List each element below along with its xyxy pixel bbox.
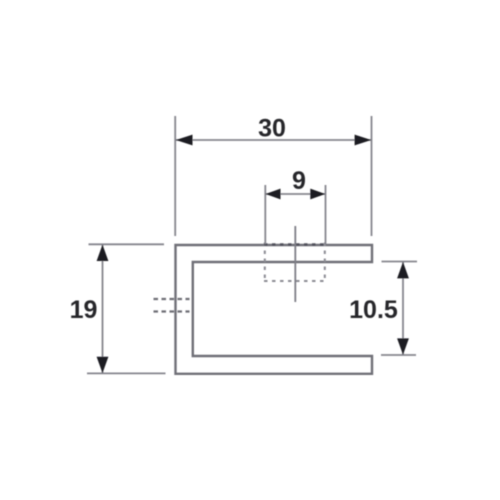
- dim 30 dimension line: [176, 139, 371, 141]
- hidden hole dashed top over solid edge: [264, 243, 326, 245]
- svg-text:10.5: 10.5: [349, 296, 398, 324]
- hidden hole right dashed side (top arm): [324, 243, 326, 282]
- dim 19 dimension line: [102, 245, 104, 373]
- dim 19 bottom extension line: [87, 372, 166, 374]
- dim 10.5 bottom extension line: [381, 354, 416, 356]
- dim 30 right extension line: [371, 116, 373, 236]
- channel profile outline: [176, 245, 373, 374]
- dim 9 right arrowhead: [310, 189, 325, 200]
- dim 9 left arrowhead: [266, 189, 281, 200]
- svg-text:30: 30: [258, 115, 286, 143]
- hidden side-hole dashed line upper (left wall): [154, 298, 190, 300]
- hidden side-hole dashed line lower (left wall): [154, 310, 190, 312]
- dim 10.5 top arrowhead: [397, 262, 409, 278]
- dim 19 top arrowhead: [97, 245, 109, 261]
- dim 19 top extension line: [89, 243, 165, 245]
- dim 9 dimension line: [266, 193, 325, 195]
- dim 9 left extension line: [264, 185, 266, 244]
- hidden hole dashed bottom (top arm): [264, 280, 326, 282]
- dim 10.5 top extension line: [382, 261, 418, 263]
- dim 30 left arrowhead: [176, 135, 193, 146]
- centerline of top hole: [294, 226, 296, 302]
- dim 9 right extension line: [325, 185, 327, 244]
- dim 19 bottom arrowhead: [97, 357, 109, 373]
- dim 10.5 dimension line: [402, 262, 404, 355]
- dim 30 left extension line: [174, 116, 176, 236]
- svg-text:19: 19: [70, 296, 98, 324]
- svg-text:9: 9: [292, 167, 306, 195]
- dim 30 right arrowhead: [355, 135, 372, 146]
- dim 10.5 bottom arrowhead: [397, 338, 409, 354]
- hidden hole left dashed side (top arm): [264, 243, 266, 282]
